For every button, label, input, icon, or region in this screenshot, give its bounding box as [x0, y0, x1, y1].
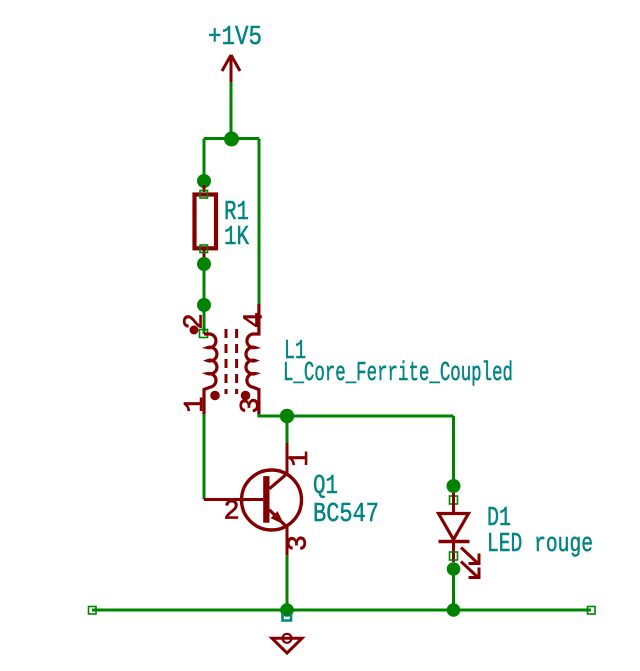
pin end square D1 top [450, 496, 458, 504]
svg-text:1: 1 [181, 396, 211, 412]
polarity dot pin1 [210, 391, 220, 401]
svg-text:LED rouge: LED rouge [487, 530, 593, 560]
LED D1 [439, 493, 481, 579]
pin end square D1 bottom [450, 552, 458, 560]
ground symbol [272, 634, 302, 653]
wire D1 to ground bus [452, 569, 455, 610]
resistor R1 [195, 185, 217, 259]
svg-text:3: 3 [237, 397, 267, 413]
junction ground bus at emitter [280, 603, 294, 617]
pin end square R1 bottom [200, 245, 208, 253]
wire left branch down to resistor [203, 139, 206, 182]
ground bus wire [92, 609, 591, 612]
polarity dot pin3 [241, 391, 251, 401]
junction ground bus at D1 [447, 603, 461, 617]
pin end square L1 pin2 [200, 330, 208, 338]
svg-text:BC547: BC547 [313, 500, 379, 530]
inductor L1 right winding [246, 304, 259, 414]
wire end square right [588, 607, 596, 615]
svg-text:2: 2 [181, 313, 211, 329]
wire L1 pin1 down to Q1 base [203, 414, 206, 500]
junction below R1 [197, 257, 211, 271]
svg-text:4: 4 [241, 312, 271, 328]
svg-text:+1V5: +1V5 [208, 23, 262, 53]
junction below D1 [447, 562, 461, 576]
pin end square R1 top [200, 191, 208, 199]
junction above D1 [447, 479, 461, 493]
junction top [224, 132, 239, 147]
junction at collector row [280, 409, 294, 423]
wire right branch down to L1 pin 4 [258, 139, 261, 305]
polarity dot pin2 [190, 326, 199, 335]
wire R1 to L1 pin2 [203, 264, 206, 334]
core dashed line left [225, 329, 228, 394]
wire Q1 emitter to ground bus [286, 555, 289, 610]
svg-text:2: 2 [224, 498, 240, 528]
net anchor bracket [283, 613, 292, 621]
svg-text:3: 3 [285, 535, 315, 551]
junction above L1 pin2 [197, 298, 211, 312]
transistor Q1 [204, 443, 302, 555]
wire junction down to Q1 collector [286, 416, 289, 443]
svg-text:1K: 1K [224, 223, 250, 253]
wire from +1V5 down to top junction [230, 82, 233, 139]
svg-text:1: 1 [286, 451, 316, 467]
junction above R1 [197, 174, 211, 188]
core dashed line right [235, 329, 238, 394]
wire end square left [89, 607, 97, 615]
wire L1 pin3 to junction row [259, 414, 454, 416]
wire collector row to D1 column [452, 416, 455, 487]
wire top horizontal [204, 137, 259, 140]
inductor L1 left winding [204, 334, 217, 414]
svg-text:Q1: Q1 [313, 472, 338, 502]
svg-text:L_Core_Ferrite_Coupled: L_Core_Ferrite_Coupled [283, 359, 513, 389]
power symbol +1V5 [222, 55, 240, 82]
